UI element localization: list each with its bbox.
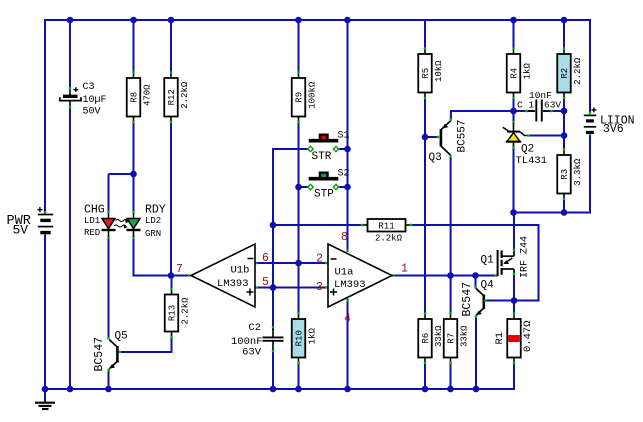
wire R3 top stub xyxy=(563,136,565,149)
wire R1 bottom to rail end xyxy=(513,363,515,391)
resistor R8 xyxy=(133,73,135,79)
svg-text:470Ω: 470Ω xyxy=(142,84,152,106)
transistor Q5 BC547 xyxy=(107,337,109,339)
wire mosfet drain riser xyxy=(513,213,515,251)
capacitor C1 xyxy=(528,110,536,112)
wire Q5 emitter to ground xyxy=(108,370,110,389)
wire pin7 node to R13 xyxy=(171,276,173,290)
wire S2 left stub xyxy=(299,186,308,188)
pushbutton S1 STR xyxy=(309,139,339,143)
wire left rail upper xyxy=(44,19,46,212)
svg-text:2: 2 xyxy=(316,253,323,266)
wire R3 bottom xyxy=(563,198,565,213)
wire R5 bottom to R6 xyxy=(424,98,426,314)
wire C2 bottom xyxy=(272,350,274,390)
LED LD2 RDY green xyxy=(132,211,134,213)
wire R8 bottom to LED node xyxy=(133,122,135,174)
wire LED anode horizontal xyxy=(109,173,135,175)
wire R5 top xyxy=(424,20,426,49)
svg-text:10kΩ: 10kΩ xyxy=(434,60,444,82)
svg-text:R12: R12 xyxy=(167,89,177,105)
svg-text:LD2: LD2 xyxy=(145,216,161,226)
wire mosfet source drop xyxy=(513,273,515,301)
svg-text:33kΩ: 33kΩ xyxy=(459,325,469,347)
wire R12 top xyxy=(170,20,172,73)
wire S1 node to C2 branch xyxy=(272,225,274,330)
svg-text:5V: 5V xyxy=(13,223,29,238)
svg-text:R2: R2 xyxy=(560,68,570,79)
svg-text:R4: R4 xyxy=(510,68,520,79)
wire LD1 anode drop xyxy=(108,174,110,212)
svg-text:10µF: 10µF xyxy=(83,95,107,106)
wire Q3 collector drop to R7 xyxy=(450,157,452,314)
svg-text:R9: R9 xyxy=(295,92,305,103)
wire S1 to S2 right xyxy=(347,149,349,187)
wire button branch from rail xyxy=(347,20,349,149)
svg-text:0.47Ω: 0.47Ω xyxy=(522,320,534,352)
wire LD1 cathode to Q5 xyxy=(108,239,110,338)
pushbutton S2 STP xyxy=(309,177,339,181)
svg-text:8: 8 xyxy=(341,231,348,244)
svg-text:R11: R11 xyxy=(378,221,394,231)
wire liion minus row xyxy=(514,212,592,214)
svg-text:STP: STP xyxy=(314,189,334,201)
wire S1 right stub xyxy=(339,148,349,150)
svg-text:2.2kΩ: 2.2kΩ xyxy=(375,234,403,244)
resistor R7 xyxy=(450,314,452,320)
wire LD2 cathode down xyxy=(133,239,135,277)
wire S1 left elbow xyxy=(272,148,308,150)
wire pin8 drop xyxy=(347,187,349,252)
svg-text:RDY: RDY xyxy=(145,203,166,216)
wire pin6 row xyxy=(255,262,328,264)
svg-text:R8: R8 xyxy=(130,92,140,103)
resistor R13 xyxy=(171,289,173,295)
svg-text:Q3: Q3 xyxy=(429,152,442,164)
wire R6 bottom xyxy=(424,363,426,390)
svg-text:CHG: CHG xyxy=(84,203,105,216)
shunt reference Q2 TL431 xyxy=(512,121,514,123)
svg-text:7: 7 xyxy=(176,263,183,276)
wire Q4 emitter to ground xyxy=(475,317,477,389)
svg-text:63V: 63V xyxy=(242,347,262,359)
svg-text:LM393: LM393 xyxy=(217,278,249,290)
svg-text:U1b: U1b xyxy=(231,264,250,276)
wire LD2 to pin7 node xyxy=(134,275,172,277)
resistor R9 xyxy=(298,73,300,79)
svg-text:S1: S1 xyxy=(338,131,350,142)
wire left rail lower xyxy=(44,235,46,391)
wire pin4 to ground xyxy=(347,299,349,390)
svg-text:4: 4 xyxy=(344,312,351,325)
svg-text:6: 6 xyxy=(262,252,269,265)
op-amp U1a LM393 xyxy=(392,274,394,276)
svg-text:GRN: GRN xyxy=(145,229,161,239)
wire C1 left xyxy=(514,110,535,112)
capacitor C3 xyxy=(69,90,71,96)
wire R7 bottom xyxy=(450,363,452,390)
svg-text:LD1: LD1 xyxy=(84,216,100,226)
ground xyxy=(44,389,46,403)
wire R1 top xyxy=(513,301,515,314)
wire Q3 base stub xyxy=(425,136,437,138)
resistor R6 xyxy=(424,314,426,320)
wire bottom ground rail xyxy=(45,388,514,390)
wire C1 right xyxy=(544,110,565,112)
junction dots xyxy=(67,17,74,24)
wire S2 right stub xyxy=(339,186,349,188)
svg-text:R6: R6 xyxy=(421,333,431,344)
wire C3 branch lower xyxy=(69,108,71,389)
svg-text:1: 1 xyxy=(401,262,408,275)
svg-text:LM393: LM393 xyxy=(334,279,366,291)
wire Q4 collector stub xyxy=(475,276,477,288)
svg-text:Q4: Q4 xyxy=(481,280,495,292)
svg-text:BC547: BC547 xyxy=(461,282,474,317)
svg-text:S2: S2 xyxy=(338,169,350,180)
wire liion battery drop xyxy=(589,134,591,212)
wire divider node drop xyxy=(563,111,565,136)
resistor R1 current sense xyxy=(513,314,515,320)
wire liion battery top xyxy=(589,19,590,21)
LED emission arrows xyxy=(116,220,128,222)
svg-text:1kΩ: 1kΩ xyxy=(307,328,317,345)
svg-text:R5: R5 xyxy=(421,68,431,79)
wire R8 top xyxy=(133,20,135,73)
svg-text:3.3kΩ: 3.3kΩ xyxy=(573,158,583,186)
svg-text:IRF Z44: IRF Z44 xyxy=(520,236,531,278)
svg-text:2.2kΩ: 2.2kΩ xyxy=(180,81,190,109)
wire pin7 to U1b xyxy=(171,275,189,277)
resistor R12 xyxy=(170,73,172,79)
wire R11 left xyxy=(273,224,362,226)
wire R11 right feedback xyxy=(411,224,540,226)
svg-text:Q2: Q2 xyxy=(521,143,534,155)
svg-text:3: 3 xyxy=(316,281,323,294)
wire TL431 anode drop xyxy=(513,147,515,213)
wire Q3 emitter riser xyxy=(450,112,452,120)
svg-text:Q5: Q5 xyxy=(115,331,128,343)
resistor R5 xyxy=(424,49,426,55)
resistor R10 (highlighted) xyxy=(298,314,300,320)
wire Q4 base row / source node xyxy=(486,300,514,302)
svg-text:10nF: 10nF xyxy=(529,90,552,101)
mosfet Q1 IRFZ44 xyxy=(494,274,496,276)
svg-text:BC547: BC547 xyxy=(93,337,106,372)
wire R4 top xyxy=(513,20,515,49)
wire R4 bottom xyxy=(513,98,515,112)
svg-text:R3: R3 xyxy=(560,169,570,180)
capacitor C2 xyxy=(272,329,274,337)
wire R13 bottom elbow xyxy=(171,337,173,353)
svg-text:1kΩ: 1kΩ xyxy=(522,63,532,80)
wire R2 bottom xyxy=(563,98,565,112)
svg-text:R13: R13 xyxy=(168,305,178,321)
svg-text:STR: STR xyxy=(312,151,332,163)
svg-text:5: 5 xyxy=(262,276,269,289)
transistor Q3 BC557 xyxy=(437,136,439,138)
wire pin5 row xyxy=(255,287,328,289)
transistor Q4 BC547 xyxy=(474,286,476,288)
svg-text:C3: C3 xyxy=(83,82,95,93)
resistor R4 xyxy=(513,49,515,55)
wire LD2 anode drop xyxy=(133,174,135,212)
wire TL431 cathode link xyxy=(513,111,515,123)
wire R9 top xyxy=(298,20,300,73)
svg-text:3V6: 3V6 xyxy=(603,123,624,136)
battery LIION 3V6 xyxy=(589,112,591,114)
wire TL431 ref row xyxy=(528,135,564,137)
svg-text:U1a: U1a xyxy=(335,267,354,279)
svg-text:100kΩ: 100kΩ xyxy=(307,81,317,109)
wire pin1 gate row xyxy=(394,275,497,277)
resistor R2 (highlighted) xyxy=(563,49,565,55)
svg-text:TL431: TL431 xyxy=(516,155,548,167)
svg-text:R1: R1 xyxy=(494,332,506,345)
op-amp U1b LM393 xyxy=(188,274,190,276)
wire top supply rail xyxy=(45,19,590,21)
svg-text:2.2kΩ: 2.2kΩ xyxy=(180,297,190,325)
svg-text:RED: RED xyxy=(84,228,100,238)
svg-text:Q1: Q1 xyxy=(481,254,495,266)
svg-text:BC557: BC557 xyxy=(457,119,469,152)
wire R10 bottom xyxy=(298,363,300,390)
resistor R11 xyxy=(362,224,368,226)
wire C3 branch upper xyxy=(69,20,71,88)
LED LD1 CHG red xyxy=(107,211,109,213)
svg-text:2.2kΩ: 2.2kΩ xyxy=(573,57,583,85)
wire R9 bottom long drop xyxy=(298,122,300,314)
wire R12 long drop to pin7 node xyxy=(170,122,172,276)
svg-text:C2: C2 xyxy=(248,322,261,334)
svg-text:R7: R7 xyxy=(447,333,457,344)
svg-text:33kΩ: 33kΩ xyxy=(434,325,444,347)
battery PWR 5V xyxy=(44,211,46,213)
svg-text:R10: R10 xyxy=(295,330,305,346)
resistor R3 xyxy=(563,150,565,156)
svg-text:50V: 50V xyxy=(83,107,101,118)
wire R2 top xyxy=(563,20,565,49)
